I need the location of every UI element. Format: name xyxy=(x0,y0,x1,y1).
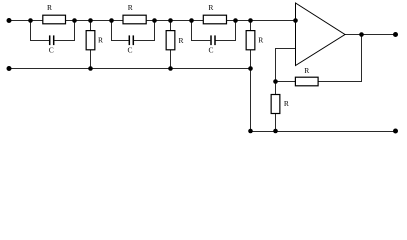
junction stage 1 resistor right / capacitor top xyxy=(72,18,77,23)
op-amp U1 xyxy=(296,3,346,66)
wire capacitor branch stage 3 xyxy=(192,21,211,41)
junction feedback node xyxy=(273,79,278,84)
junction stage 3 resistor right / capacitor top xyxy=(233,18,238,23)
terminal bottom right xyxy=(393,129,398,134)
svg-text:R: R xyxy=(178,36,183,45)
junction stage 2 shunt resistor top xyxy=(168,18,173,23)
wire shunt resistor drop stage 1 xyxy=(90,21,92,69)
svg-text:C: C xyxy=(127,46,132,55)
resistor R series stage 2 xyxy=(123,15,146,24)
resistor R shunt stage 1 xyxy=(86,31,95,50)
resistor R feedback horizontal xyxy=(295,77,318,86)
wire feedback resistor to op-amp input node xyxy=(276,81,296,83)
svg-text:C: C xyxy=(208,46,213,55)
wire feedback from output down to resistor xyxy=(318,35,361,82)
svg-text:R: R xyxy=(304,66,309,75)
capacitor C stage 3 xyxy=(211,35,215,45)
svg-text:R: R xyxy=(284,99,289,108)
junction middle rail stage 1 shunt xyxy=(88,66,93,71)
svg-text:R: R xyxy=(208,3,213,12)
junction output feedback tap xyxy=(359,32,364,37)
junction stage 1 shunt resistor top xyxy=(88,18,93,23)
junction op-amp inverting input xyxy=(293,18,298,23)
junction stage 2 resistor left / capacitor top xyxy=(109,18,114,23)
terminal middle left xyxy=(7,66,12,71)
wire capacitor branch stage 2 xyxy=(112,21,129,41)
capacitor C stage 2 xyxy=(129,35,133,45)
svg-text:R: R xyxy=(128,3,133,12)
junction middle rail stage 2 shunt xyxy=(168,66,173,71)
resistor R shunt stage 3 xyxy=(246,31,255,50)
capacitor C stage 1 xyxy=(50,35,54,45)
resistor R series stage 1 xyxy=(43,15,66,24)
wire shunt resistor drop stage 3 down to bottom rail xyxy=(250,21,252,132)
junction middle rail stage 3 shunt xyxy=(248,66,253,71)
svg-text:R: R xyxy=(258,35,263,44)
wire capacitor branch stage 1 xyxy=(31,21,50,41)
terminal output xyxy=(393,32,398,37)
resistor R series stage 3 xyxy=(203,15,226,24)
resistor R to ground at op-amp input xyxy=(271,95,280,114)
junction bottom rail left xyxy=(248,129,253,134)
wire top rail input to op-amp xyxy=(9,20,296,22)
junction stage 2 resistor right / capacitor top xyxy=(152,18,157,23)
svg-text:R: R xyxy=(98,35,103,44)
svg-text:C: C xyxy=(49,46,54,55)
wire middle rail xyxy=(9,68,251,70)
svg-text:R: R xyxy=(47,3,52,12)
terminal input xyxy=(7,18,12,23)
wire shunt resistor drop stage 2 xyxy=(170,21,172,69)
wire bottom rail xyxy=(251,131,396,133)
resistor R shunt stage 2 xyxy=(166,31,175,50)
junction stage 1 resistor left / capacitor top xyxy=(28,18,33,23)
junction stage 3 resistor left / capacitor top xyxy=(189,18,194,23)
wire non-inverting input branch xyxy=(276,49,296,132)
junction bottom rail ground resistor xyxy=(273,129,278,134)
junction stage 3 shunt resistor top xyxy=(248,18,253,23)
wire output xyxy=(345,34,396,36)
